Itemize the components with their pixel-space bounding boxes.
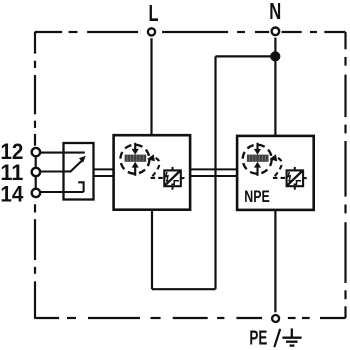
svg-text:PE: PE <box>249 328 267 350</box>
trigger square step curve <box>171 181 179 185</box>
dashed trigger arc <box>274 158 282 177</box>
trigger device square <box>164 170 181 186</box>
wire N drop <box>274 37 276 137</box>
wire bottom U horizontal <box>152 288 216 290</box>
wire SPD1 bottom drop <box>151 209 153 289</box>
trigger square diagonal <box>165 171 180 185</box>
trigger square step curve <box>294 181 302 185</box>
trigger square stubs <box>173 167 185 190</box>
earth ground symbol <box>282 328 301 345</box>
spark gap electrode bar <box>125 155 147 162</box>
terminal 12 <box>29 146 42 159</box>
junction dot N branch <box>270 51 280 61</box>
trigger square flash <box>166 172 169 183</box>
svg-text:L: L <box>149 0 159 26</box>
svg-text:NPE: NPE <box>244 188 269 206</box>
trigger square diagonal <box>288 171 303 185</box>
wire branch vertical <box>214 56 216 289</box>
SPD2 box (N-PE spark gap) <box>237 136 314 210</box>
trigger arrowhead at circle <box>269 154 277 162</box>
dashed trigger arc <box>151 158 159 177</box>
terminal L <box>145 26 158 39</box>
terminal 14 <box>29 186 42 199</box>
trigger square flash <box>288 172 291 183</box>
trigger arrowhead at circle <box>146 154 154 162</box>
svg-text:14: 14 <box>0 182 23 207</box>
enclosure dash-dot border <box>34 32 345 318</box>
left border solid segments between terminals <box>35 157 37 168</box>
remote signalling contact box <box>64 143 94 200</box>
wire junction branch horizontal <box>216 55 276 57</box>
wire terminal 11 to contact box <box>40 170 67 172</box>
spark gap dashed circle <box>243 145 272 174</box>
wire L drop <box>150 37 152 136</box>
electrode bottom arrow <box>254 162 261 176</box>
SPD1 box (L-N spark gap) <box>114 135 191 210</box>
spark gap dashed circle <box>120 145 149 174</box>
electrode top arrow <box>132 143 139 155</box>
terminal N <box>269 25 282 38</box>
wire N to NPE bottom / PE <box>274 209 276 315</box>
electrode top arrow <box>254 143 261 155</box>
contact 14 hook <box>78 182 83 192</box>
wire terminal 14 to contact box <box>40 191 84 193</box>
wire terminal 12 to contact box <box>40 152 85 154</box>
terminal PE <box>269 312 282 325</box>
SPD2 spark-gap symbol group <box>243 143 307 190</box>
trigger square stubs <box>295 167 307 190</box>
mechanical link contact to SPD1 (double line) <box>94 169 114 176</box>
spark gap electrode bar <box>247 155 269 162</box>
electrode bottom arrow <box>132 162 139 176</box>
changeover switch blade <box>66 156 86 172</box>
svg-text:N: N <box>269 0 281 24</box>
SPD1 spark-gap symbol group <box>120 143 184 190</box>
terminal 11 <box>29 166 42 179</box>
trigger device square <box>287 170 304 186</box>
mechanical link SPD1 to SPD2 (double line) <box>190 169 237 176</box>
